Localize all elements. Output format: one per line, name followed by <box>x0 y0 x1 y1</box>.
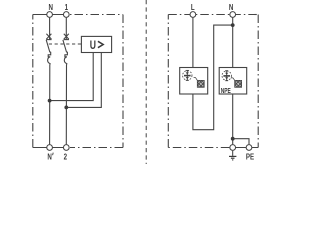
enclosure border left device (dash-dot) <box>33 15 123 148</box>
svg-text:N: N <box>229 2 233 12</box>
varistor square inside SPD1 <box>194 78 205 88</box>
terminal circle PE <box>246 145 252 151</box>
terminal circle N right <box>230 12 236 18</box>
earth ground symbol <box>229 151 236 160</box>
enclosure border right device (dash-dot) <box>168 15 258 148</box>
switch blade pole 1 <box>63 40 67 53</box>
junction dot pole N / U> leg1 <box>48 99 52 103</box>
terminal circle earth <box>230 145 236 151</box>
wire L <box>192 18 194 68</box>
wire branch to PE <box>233 139 249 145</box>
svg-text:U: U <box>90 40 96 53</box>
terminal circle N top <box>47 12 53 18</box>
junction dot pole 1 / U> leg2 <box>64 106 68 110</box>
thermal disconnector X pole 1 <box>64 34 69 40</box>
terminal circle N' bottom <box>47 145 53 151</box>
thermal disconnector X pole N <box>46 34 51 40</box>
SPD arrester box 2 (N-PE) <box>219 68 247 95</box>
breaker release profile + wire down pole 1 <box>64 52 67 144</box>
spark gap symbol inside SPD2 <box>222 71 231 81</box>
terminal circle 1 top <box>63 12 69 18</box>
svg-text:N: N <box>47 152 51 162</box>
svg-text:1: 1 <box>65 2 68 12</box>
wire from SPD1 output to N tap <box>193 25 233 130</box>
svg-text:NPE: NPE <box>221 89 231 96</box>
U> leg 2 <box>66 53 101 108</box>
junction dot PE branch <box>231 137 235 141</box>
wire pole 1 top <box>65 18 67 40</box>
U> leg 1 <box>50 53 94 101</box>
switch blade pole N <box>46 40 50 53</box>
wire NPE output down <box>232 94 234 144</box>
svg-text:PE: PE <box>246 151 254 161</box>
terminal circle 2 bottom <box>63 145 69 151</box>
SPD arrester box 1 <box>180 68 208 95</box>
mechanical linkage dashed <box>49 43 82 45</box>
voltage monitor box U> <box>81 36 111 52</box>
svg-text:2: 2 <box>64 152 67 162</box>
breaker release profile + wire down pole N <box>48 52 51 144</box>
label > greater-than sign <box>98 41 103 47</box>
wire N right panel <box>232 18 234 68</box>
svg-text:L: L <box>191 2 195 12</box>
terminal circle L <box>190 12 196 18</box>
varistor square inside SPD2 <box>231 78 242 87</box>
junction dot N tap <box>231 23 235 27</box>
spark gap symbol inside SPD1 <box>183 70 192 80</box>
svg-text:N: N <box>48 2 52 12</box>
label prime mark of N' <box>52 153 55 156</box>
panel divider dashed line <box>145 0 147 164</box>
wire pole N top <box>49 18 51 40</box>
